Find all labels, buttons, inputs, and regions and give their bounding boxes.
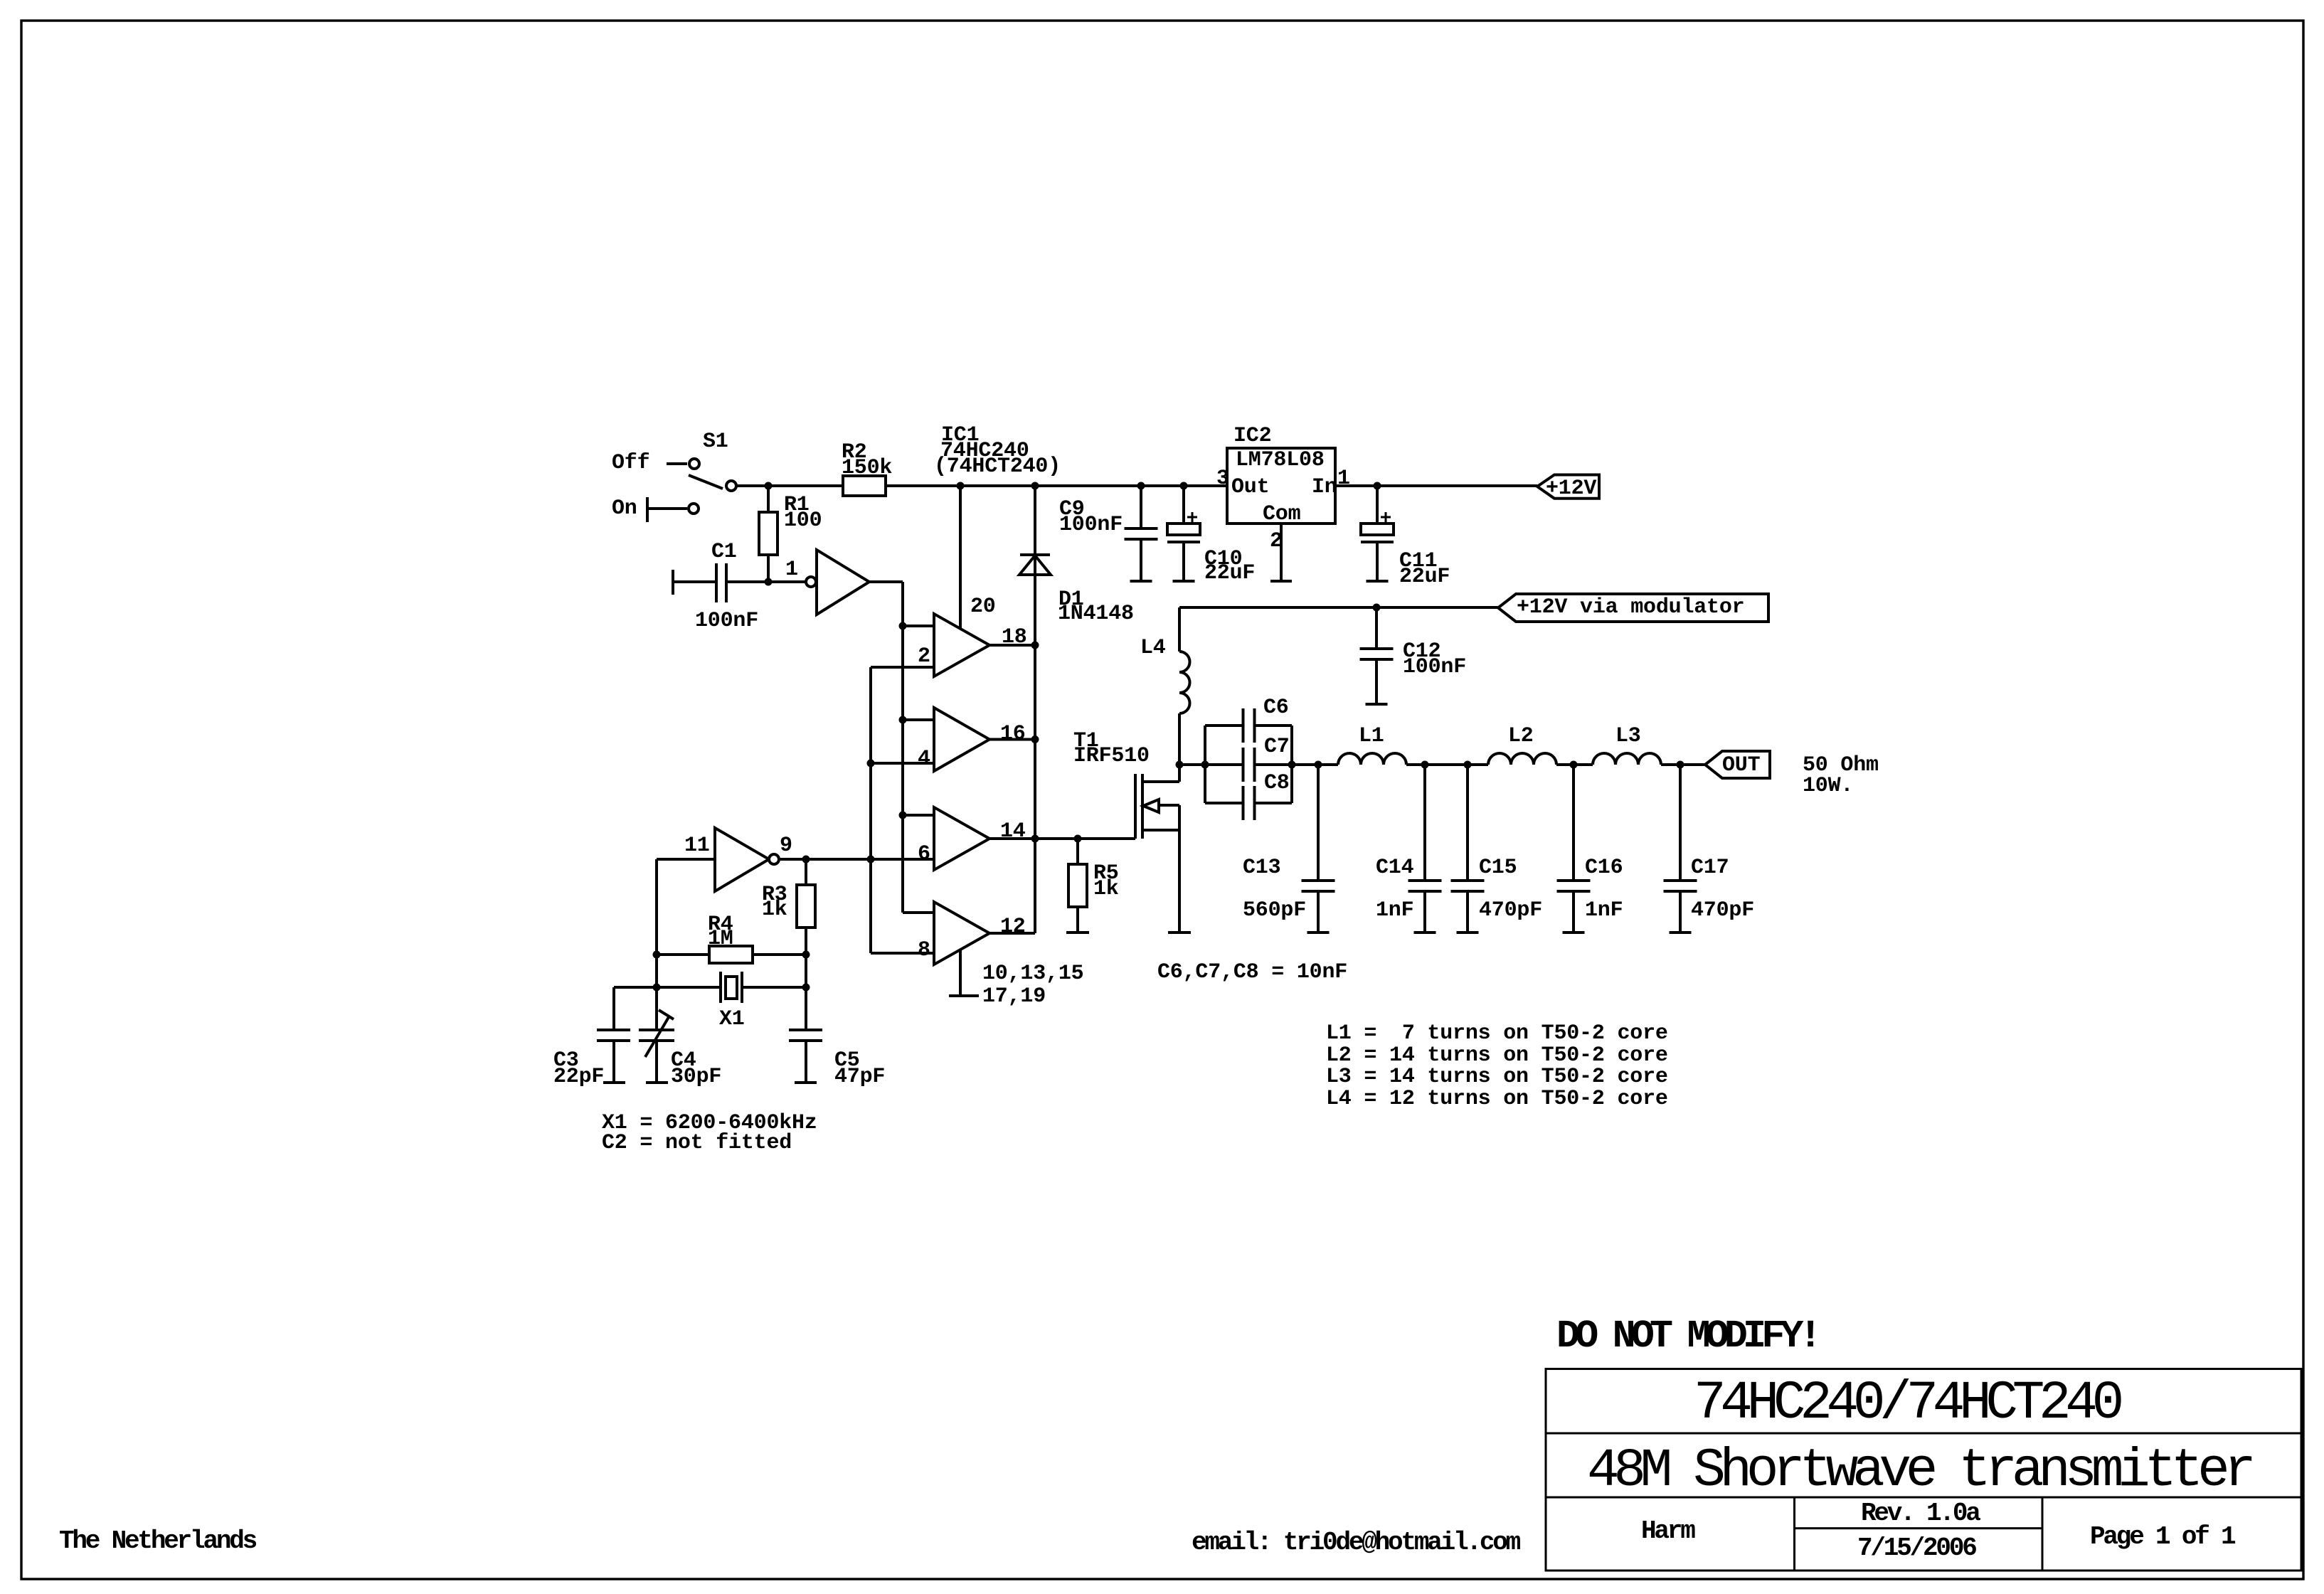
wire switch to R1 node (737, 484, 768, 487)
capacitor C1 (673, 563, 726, 602)
switch S1 On contact stub (647, 497, 687, 522)
svg-text:3: 3 (1216, 467, 1229, 491)
net flag OUT (1705, 751, 1770, 778)
wire L1 to L2 (1406, 763, 1488, 766)
node junction rail/C10 (1180, 482, 1187, 489)
svg-text:7/15/2006: 7/15/2006 (1857, 1534, 1976, 1563)
resistor R5 (1066, 839, 1089, 933)
svg-text:L3: L3 (1615, 724, 1641, 748)
switch S1 common contact (726, 481, 736, 491)
wire buffer4 enable upper (903, 814, 934, 817)
resistor R4 (657, 946, 806, 963)
wire buffer5 enable upper (903, 815, 934, 913)
node junction pin9/R3 (802, 856, 810, 863)
svg-text:L2 = 14 turns on T50-2 core: L2 = 14 turns on T50-2 core (1326, 1043, 1668, 1068)
wire buffer3 output (989, 738, 1035, 741)
output bus vertical D1 to pin12 (1034, 645, 1036, 933)
op-amp U1C buffer pin4-16 (934, 708, 989, 771)
svg-text:1nF: 1nF (1585, 898, 1623, 923)
svg-text:C8: C8 (1264, 771, 1290, 795)
capacitor C15 (1466, 765, 1469, 881)
wire buffer5 output (989, 932, 1035, 935)
svg-text:Out: Out (1231, 475, 1269, 499)
svg-text:4: 4 (918, 747, 930, 771)
capacitor C12 (1375, 607, 1378, 649)
svg-text:DO NOT MODIFY!: DO NOT MODIFY! (1556, 1314, 1818, 1359)
node junction output bus/14 (1031, 835, 1039, 842)
node junction rail/pin20 (957, 482, 964, 489)
capacitor C4 variable (639, 1010, 674, 1083)
switch S1 Off contact (689, 459, 699, 469)
svg-text:470pF: 470pF (1479, 898, 1542, 923)
wire buffer3 input lower (871, 762, 934, 765)
svg-text:74HC240/74HCT240: 74HC240/74HCT240 (1694, 1373, 2121, 1434)
svg-text:100nF: 100nF (695, 609, 758, 633)
op-amp U1B buffer pin2-18 (934, 614, 989, 676)
op-amp U1A enable inverter IC1 pin1 (806, 550, 869, 615)
capacitor bank C6 C7 C8 (1205, 708, 1292, 820)
node junction busB/buffer3 input (867, 760, 874, 767)
node junction R4 left (653, 951, 660, 958)
node junction output bus/18 (1031, 642, 1039, 649)
capacitor C9 (1140, 486, 1142, 528)
svg-text:Page 1 of 1: Page 1 of 1 (2090, 1522, 2236, 1551)
svg-text:Rev. 1.0a: Rev. 1.0a (1861, 1499, 1980, 1528)
svg-text:On: On (612, 496, 637, 521)
capacitor C14 (1423, 765, 1426, 881)
node junction C13 (1315, 761, 1322, 768)
wire enable gate output to bus A (869, 582, 903, 913)
svg-text:C17: C17 (1691, 856, 1729, 880)
svg-text:100: 100 (784, 509, 822, 533)
wire L2 to L3 (1556, 763, 1593, 766)
svg-text:10,13,15: 10,13,15 (982, 962, 1083, 986)
title block frame (1546, 1369, 2301, 1571)
svg-text:47pF: 47pF (834, 1065, 885, 1089)
svg-text:1N4148: 1N4148 (1058, 602, 1134, 626)
svg-text:Harm: Harm (1641, 1516, 1695, 1546)
svg-text:470pF: 470pF (1691, 898, 1754, 923)
svg-text:The Netherlands: The Netherlands (59, 1526, 257, 1556)
node junction gate/R5 (1074, 835, 1081, 842)
switch S1 On contact (689, 504, 699, 514)
svg-text:1: 1 (785, 558, 798, 582)
svg-text:OUT: OUT (1722, 753, 1761, 777)
crystal X1 (614, 972, 806, 1003)
node junction drain/L4 (1176, 761, 1183, 768)
svg-text:1k: 1k (1093, 877, 1119, 901)
op-amp U1E buffer pin8-12 (934, 902, 989, 965)
svg-text:IRF510: IRF510 (1073, 744, 1150, 768)
transistor Q1 T1 IRF510 (1135, 765, 1191, 933)
switch S1 Off contact stub wire (667, 462, 687, 465)
svg-text:C6,C7,C8 = 10nF: C6,C7,C8 = 10nF (1157, 960, 1347, 984)
svg-text:100nF: 100nF (1403, 655, 1466, 679)
svg-text:+12V: +12V (1546, 477, 1596, 501)
svg-text:1nF: 1nF (1376, 898, 1413, 923)
wire feedback left vertical (655, 955, 658, 1030)
svg-text:150k: 150k (842, 456, 892, 480)
node junction rail/C9 (1137, 482, 1145, 489)
svg-text:48M Shortwave transmitter: 48M Shortwave transmitter (1587, 1440, 2251, 1502)
svg-text:30pF: 30pF (671, 1065, 721, 1089)
wire L3 to OUT (1661, 763, 1705, 766)
node junction output bus/16 (1031, 736, 1039, 743)
svg-text:Com: Com (1263, 502, 1300, 526)
net flag +12V (1537, 475, 1599, 499)
wire buffer2 input lower (871, 666, 934, 669)
inductor L4 (1179, 607, 1190, 765)
resistor R3 (797, 859, 815, 955)
svg-text:C15: C15 (1479, 856, 1517, 880)
svg-text:C14: C14 (1376, 856, 1414, 880)
node junction modrail/C12 (1373, 604, 1380, 611)
node junction C14 (1421, 761, 1428, 768)
node junction In-rail/C11 (1374, 482, 1381, 489)
svg-text:12: 12 (1000, 915, 1026, 939)
svg-text:L2: L2 (1508, 724, 1534, 748)
svg-text:C13: C13 (1243, 856, 1280, 880)
net flag +12V via modulator (1498, 594, 1768, 622)
svg-text:22pF: 22pF (553, 1065, 604, 1089)
capacitor C11 electrolytic (1361, 486, 1394, 581)
node junction C16 (1570, 761, 1577, 768)
svg-text:C7: C7 (1264, 735, 1290, 759)
inductor L2 (1488, 753, 1556, 765)
wire C1 to pin1 node (726, 580, 768, 583)
node junction cap bank left (1201, 761, 1209, 768)
svg-text:14: 14 (1000, 819, 1026, 844)
svg-text:6: 6 (918, 842, 930, 866)
node junction X1 left (653, 984, 660, 991)
svg-text:17,19: 17,19 (982, 984, 1046, 1009)
switch S1 lever (689, 475, 723, 489)
svg-text:10W.: 10W. (1803, 774, 1853, 798)
IC2 Com ground lead (1270, 524, 1292, 581)
svg-text:S1: S1 (703, 430, 728, 454)
node junction R4 right (802, 951, 810, 958)
svg-text:In: In (1312, 475, 1337, 499)
capacitor C13 (1317, 765, 1320, 881)
svg-text:100nF: 100nF (1059, 513, 1123, 537)
node junction busA/buffer4 (899, 812, 906, 819)
capacitor C3 (597, 987, 630, 1083)
wire +12V via modulator rail (1179, 606, 1498, 609)
wire R3 bottom vertical (805, 955, 807, 1030)
svg-text:L4: L4 (1140, 636, 1166, 660)
svg-text:2: 2 (918, 644, 930, 669)
svg-text:LM78L08: LM78L08 (1236, 448, 1325, 472)
wire buffer5 input lower (871, 952, 934, 955)
wire +12V rail R1-node to R2 (768, 484, 843, 487)
node junction X1 right (802, 984, 810, 991)
svg-text:X1: X1 (719, 1007, 745, 1031)
svg-text:C1: C1 (711, 540, 737, 564)
svg-text:IC2: IC2 (1233, 424, 1271, 448)
capacitor C16 (1572, 765, 1575, 881)
svg-text:11: 11 (684, 834, 710, 858)
wire buffer2 output (989, 644, 1035, 647)
wire drain to cap bank (1179, 763, 1205, 766)
node junction cap bank right (1288, 761, 1295, 768)
svg-text:16: 16 (1000, 722, 1026, 746)
inductor L3 (1593, 753, 1661, 765)
node junction C15 (1464, 761, 1471, 768)
svg-text:(74HCT240): (74HCT240) (934, 455, 1061, 479)
svg-text:C16: C16 (1585, 856, 1623, 880)
capacitor C5 (789, 1030, 822, 1083)
node junction C17 (1677, 761, 1684, 768)
svg-text:560pF: 560pF (1243, 898, 1306, 923)
ground IC1 input pins (949, 950, 979, 996)
op-amp U1F oscillator inverter pin11-9 (715, 828, 779, 891)
svg-text:L1 = 7 turns on T50-2 core: L1 = 7 turns on T50-2 core (1326, 1021, 1668, 1046)
svg-text:+12V via modulator: +12V via modulator (1517, 595, 1744, 620)
wire osc output pin9 (779, 858, 806, 861)
svg-text:1k: 1k (762, 898, 787, 922)
svg-text:C6: C6 (1263, 696, 1289, 720)
wire osc input pin11 (657, 859, 715, 955)
svg-text:8: 8 (918, 938, 930, 962)
bus B oscillator signal vertical (869, 667, 872, 953)
wire IC1 pin 20 Vcc (959, 486, 962, 629)
capacitor C10 electrolytic (1167, 486, 1200, 581)
node junction busA/buffer3 (899, 716, 906, 723)
svg-text:email: tri0de@hotmail.com: email: tri0de@hotmail.com (1192, 1528, 1521, 1557)
op-amp U1D buffer pin6-14 (934, 807, 989, 870)
resistor R1 (759, 486, 778, 582)
wire bank to C13 node (1292, 763, 1338, 766)
inductor L1 (1338, 753, 1406, 765)
svg-text:Off: Off (612, 451, 649, 475)
wire IC2 In to +12V flag (1335, 484, 1537, 487)
svg-text:L3 = 14 turns on T50-2 core: L3 = 14 turns on T50-2 core (1326, 1065, 1668, 1089)
svg-text:18: 18 (1002, 625, 1027, 649)
capacitor C17 (1679, 765, 1682, 881)
wire +12V rail R2 to IC2 (886, 484, 1227, 487)
node junction rail/R1 (765, 482, 772, 489)
regulator IC2 LM78L08 box (1227, 448, 1335, 524)
resistor R2 (843, 476, 886, 496)
svg-text:C2 = not fitted: C2 = not fitted (602, 1131, 792, 1155)
wire node to enable gate bubble (768, 580, 806, 583)
svg-text:L1: L1 (1359, 724, 1384, 748)
diode D1 (1019, 486, 1051, 645)
svg-text:L4 = 12 turns on T50-2 core: L4 = 12 turns on T50-2 core (1326, 1087, 1668, 1111)
node junction busB/osc line (867, 856, 874, 863)
wire osc signal to buffers (806, 858, 934, 861)
node junction busA/buffer2 (899, 622, 906, 629)
wire buffer4 output to T1 gate (989, 837, 1135, 840)
svg-text:1M: 1M (708, 927, 733, 951)
wire buffer3 enable upper (903, 718, 934, 721)
node junction C1/R1/pin1 (765, 578, 772, 585)
svg-text:9: 9 (780, 834, 792, 858)
node junction rail/D1 (1031, 482, 1039, 489)
svg-text:22uF: 22uF (1399, 565, 1450, 589)
wire buffer2 enable upper (903, 625, 934, 627)
svg-text:22uF: 22uF (1204, 561, 1255, 585)
svg-text:20: 20 (970, 595, 996, 619)
